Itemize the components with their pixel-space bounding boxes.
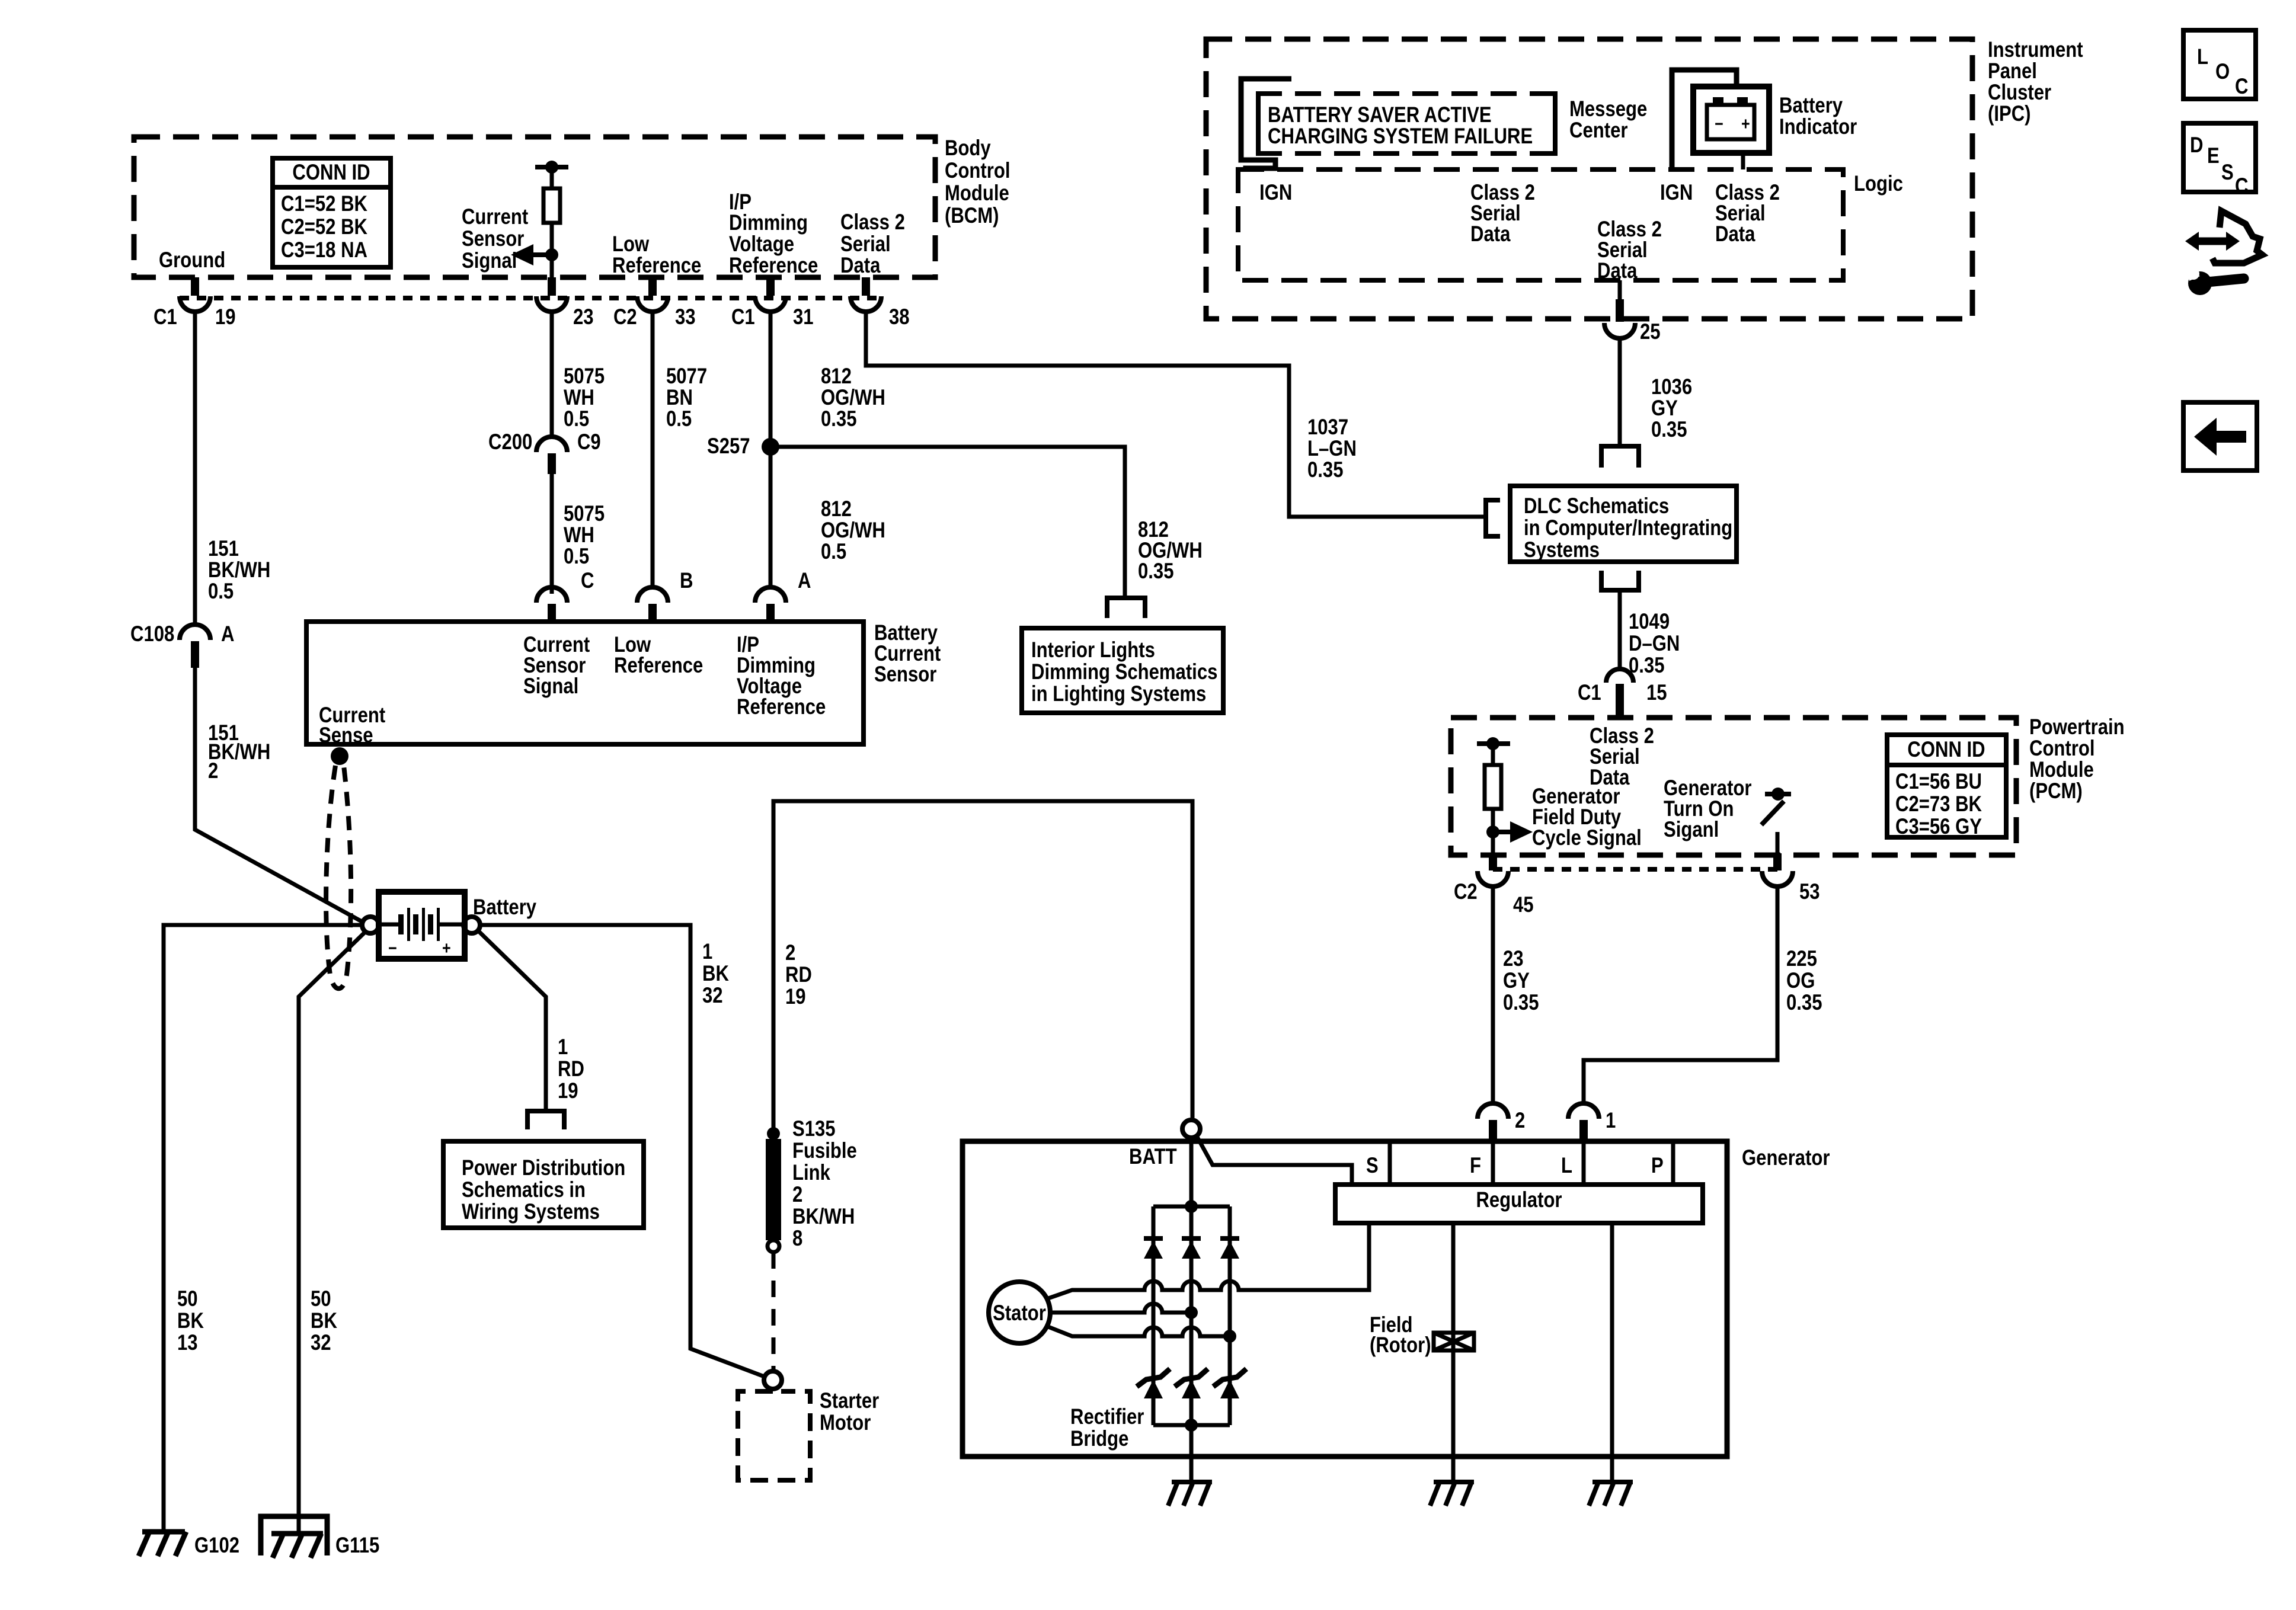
rectifier diode column 1	[1137, 1206, 1170, 1425]
svg-text:Sensor: Sensor	[874, 662, 936, 686]
svg-text:C: C	[2235, 174, 2249, 198]
svg-text:5077: 5077	[666, 364, 707, 388]
wire 1049 D-GN 0.35	[1620, 590, 1680, 677]
dashed current sense loop around battery cable	[326, 766, 351, 988]
resistor (BCM current sensor pull-up)	[535, 161, 568, 279]
svg-text:45: 45	[1513, 892, 1534, 917]
svg-text:19: 19	[215, 305, 236, 329]
svg-text:Indicator: Indicator	[1779, 114, 1857, 139]
starter motor terminal	[764, 1371, 782, 1389]
svg-text:(PCM): (PCM)	[2029, 779, 2083, 803]
svg-text:C1=52 BK: C1=52 BK	[281, 191, 367, 216]
stator lead 2	[1050, 1304, 1198, 1319]
svg-text:F: F	[1470, 1153, 1481, 1177]
wire BATT down to rectifier	[1189, 1138, 1194, 1206]
wire 5075 WH 0.5 (pin 23 to C200)	[552, 312, 605, 439]
wire rectifier to ground	[1189, 1425, 1194, 1482]
pin 23 (Current Sensor Signal)	[536, 277, 594, 329]
svg-text:Cluster: Cluster	[1988, 80, 2051, 104]
starter motor dashed box	[738, 1388, 879, 1480]
switch (generator turn on signal)	[1664, 776, 1791, 853]
wire 812 OG/WH 0.35 (S257 to interior lights)	[770, 447, 1203, 596]
svg-text:Sense: Sense	[319, 723, 373, 747]
connector C1 15 (PCM)	[1578, 669, 1667, 718]
svg-text:Battery: Battery	[1779, 93, 1843, 117]
ground G102	[139, 1532, 239, 1557]
wire 225 OG 0.35 (53 to generator L)	[1584, 886, 1822, 1103]
svg-text:Center: Center	[1569, 118, 1628, 142]
svg-text:CONN ID: CONN ID	[1907, 737, 1985, 761]
svg-text:Dimming Schematics: Dimming Schematics	[1031, 660, 1217, 684]
svg-text:CONN ID: CONN ID	[292, 160, 370, 184]
BCM module box (Body Control Module)	[134, 136, 1011, 277]
schematic cup (DLC left)	[1486, 500, 1500, 536]
wire logic to connector 25	[1618, 280, 1622, 305]
rectifier diode column 3	[1213, 1206, 1246, 1425]
PCM class 2 label	[1590, 724, 1654, 789]
svg-text:C3=56 GY: C3=56 GY	[1895, 814, 1982, 838]
LOC icon box	[2183, 30, 2256, 99]
wire label 1037 L-GN 0.35	[1307, 415, 1357, 482]
Interior Lights box	[1022, 628, 1223, 713]
DLC Schematics box	[1510, 486, 1737, 562]
svg-text:C108: C108	[130, 622, 174, 646]
logic input labels	[1259, 180, 1780, 283]
CONN ID table (BCM)	[273, 158, 391, 267]
stator lead 1 (to regulator)	[1047, 1223, 1369, 1299]
svg-text:BK: BK	[702, 961, 729, 985]
svg-text:L: L	[2197, 44, 2208, 69]
svg-text:0.5: 0.5	[564, 406, 589, 431]
wire 151 BK/WH 0.5 (ground to C108)	[195, 312, 270, 626]
CONN ID table (PCM)	[1887, 735, 2006, 838]
svg-text:D–GN: D–GN	[1629, 631, 1680, 655]
svg-text:32: 32	[702, 983, 723, 1007]
svg-text:Reference: Reference	[612, 253, 701, 277]
svg-text:19: 19	[558, 1078, 578, 1103]
diagnostic tool icon	[2185, 211, 2262, 295]
svg-text:(IPC): (IPC)	[1988, 101, 2031, 126]
svg-text:Starter: Starter	[820, 1388, 879, 1413]
dashed wire fusible link to starter	[772, 1252, 776, 1371]
Battery Current Sensor box	[306, 620, 941, 747]
svg-text:Reference: Reference	[614, 653, 703, 677]
svg-text:Signal: Signal	[523, 674, 578, 698]
svg-text:Ground: Ground	[159, 248, 225, 272]
pin B (sensor)	[637, 568, 693, 622]
svg-text:BK/WH: BK/WH	[792, 1204, 855, 1228]
svg-text:(Rotor): (Rotor)	[1370, 1333, 1431, 1357]
svg-text:in Lighting Systems: in Lighting Systems	[1031, 681, 1206, 706]
svg-text:53: 53	[1799, 879, 1820, 904]
back arrow icon box	[2183, 402, 2257, 470]
stator	[989, 1282, 1050, 1343]
PCM module box (Powertrain Control Module)	[1451, 715, 2125, 855]
svg-text:L: L	[1561, 1153, 1572, 1177]
wire 5075 WH 0.5 (C200 to pin C)	[552, 474, 605, 594]
svg-text:33: 33	[675, 305, 696, 329]
svg-text:0.5: 0.5	[208, 579, 234, 603]
svg-text:C3=18 NA: C3=18 NA	[281, 238, 367, 262]
schematic cup (DLC top)	[1601, 446, 1639, 468]
svg-text:WH: WH	[564, 523, 594, 547]
solid hook (message center to logic box)	[1241, 79, 1291, 172]
svg-text:2: 2	[792, 1182, 802, 1206]
svg-text:0.35: 0.35	[1307, 457, 1344, 482]
fusible link S135	[766, 1116, 857, 1252]
arrow (current sensor signal)	[462, 204, 558, 273]
svg-text:Low: Low	[612, 232, 649, 256]
DESC icon box	[2183, 123, 2256, 198]
svg-text:Battery: Battery	[473, 895, 536, 919]
svg-text:Logic: Logic	[1854, 171, 1903, 196]
pin 38 (Class 2 Serial Data)	[850, 277, 910, 329]
connector 25 (IPC)	[1604, 299, 1661, 344]
svg-text:1: 1	[702, 939, 712, 964]
svg-text:50: 50	[311, 1286, 331, 1311]
svg-text:C2=52 BK: C2=52 BK	[281, 215, 367, 239]
wire 5077 BN 0.5 (pin 33 to pin B)	[653, 312, 707, 588]
svg-text:OG: OG	[1786, 968, 1815, 993]
wire 1 RD 19 (battery positive to power distribution)	[478, 930, 584, 1109]
svg-text:1036: 1036	[1651, 375, 1692, 399]
svg-text:Generator: Generator	[1742, 1145, 1830, 1170]
wire 1 BK 32 (battery positive to starter motor)	[480, 925, 766, 1377]
svg-text:S: S	[1366, 1153, 1379, 1177]
wire 1036 GY 0.35	[1620, 338, 1692, 446]
svg-text:+: +	[1741, 114, 1750, 134]
svg-text:BN: BN	[666, 385, 693, 409]
wire 812 OG/WH 0.35 (pin 31 to S257)	[770, 312, 885, 588]
svg-text:S: S	[2221, 160, 2234, 184]
svg-text:0.35: 0.35	[1503, 990, 1539, 1014]
svg-text:Control: Control	[2029, 736, 2095, 760]
svg-text:Panel: Panel	[1988, 59, 2037, 83]
svg-text:Siganl: Siganl	[1664, 817, 1719, 841]
svg-text:C2: C2	[613, 305, 637, 329]
BCM connector face dashed line	[180, 296, 881, 300]
svg-text:Control: Control	[945, 158, 1011, 183]
IPC module box (Instrument Panel Cluster)	[1206, 37, 2083, 319]
schematic cup (DLC bottom)	[1601, 571, 1639, 590]
svg-text:Instrument: Instrument	[1988, 37, 2083, 62]
svg-text:31: 31	[793, 305, 814, 329]
svg-text:Regulator: Regulator	[1476, 1188, 1562, 1212]
connector 2 (generator F)	[1478, 1103, 1525, 1142]
wire 151 BK/WH 2 (C108 to battery)	[195, 668, 363, 922]
svg-text:2: 2	[785, 940, 795, 965]
svg-text:32: 32	[311, 1330, 331, 1355]
svg-text:E: E	[2207, 143, 2220, 168]
rectifier top bus	[1153, 1200, 1230, 1213]
Power Distribution box	[443, 1141, 644, 1228]
svg-text:Wiring Systems: Wiring Systems	[462, 1199, 600, 1224]
svg-text:IGN: IGN	[1259, 180, 1292, 204]
svg-text:5075: 5075	[564, 501, 605, 526]
svg-text:OG/WH: OG/WH	[821, 518, 885, 542]
svg-text:Power Distribution: Power Distribution	[462, 1156, 625, 1180]
svg-text:Sensor: Sensor	[462, 226, 524, 251]
connector 53 (PCM)	[1762, 853, 1820, 904]
current sense node dot	[331, 747, 348, 765]
svg-text:BATT: BATT	[1129, 1144, 1177, 1169]
svg-text:Voltage: Voltage	[729, 232, 794, 256]
svg-text:50: 50	[177, 1286, 198, 1311]
svg-text:−: −	[1715, 114, 1723, 134]
svg-text:1049: 1049	[1629, 609, 1670, 633]
svg-text:1037: 1037	[1307, 415, 1348, 439]
svg-text:C1=56 BU: C1=56 BU	[1895, 769, 1982, 793]
battery cell symbol	[380, 908, 463, 958]
svg-text:A: A	[221, 622, 235, 646]
svg-text:A: A	[798, 568, 811, 593]
svg-text:Data: Data	[840, 253, 881, 277]
PCM connector face dashed line	[1493, 867, 1777, 872]
ground (rectifier)	[1168, 1482, 1212, 1506]
svg-text:D: D	[2190, 133, 2204, 157]
battery indicator icon	[1672, 70, 1857, 169]
svg-text:Module: Module	[945, 181, 1009, 205]
svg-text:B: B	[680, 568, 693, 593]
ground (field)	[1430, 1482, 1474, 1506]
svg-text:G102: G102	[194, 1533, 239, 1557]
svg-text:C1: C1	[154, 305, 177, 329]
svg-text:Dimming: Dimming	[729, 210, 808, 235]
splice S257	[707, 434, 779, 458]
svg-text:8: 8	[792, 1226, 802, 1250]
svg-text:G115: G115	[335, 1533, 379, 1557]
svg-text:0.35: 0.35	[1629, 653, 1665, 677]
svg-text:DLC Schematics: DLC Schematics	[1524, 494, 1669, 518]
svg-text:C: C	[2235, 74, 2249, 98]
svg-text:2: 2	[208, 758, 218, 783]
svg-text:Serial: Serial	[840, 232, 891, 256]
wire battery negative to G115	[299, 932, 366, 1534]
stator lead 3	[1047, 1326, 1236, 1343]
svg-text:BK/WH: BK/WH	[208, 558, 270, 582]
svg-text:Motor: Motor	[820, 1410, 871, 1435]
svg-text:Rectifier: Rectifier	[1070, 1404, 1144, 1429]
svg-text:GY: GY	[1503, 968, 1530, 993]
svg-text:225: 225	[1786, 946, 1817, 971]
ground (regulator P)	[1589, 1482, 1633, 1506]
svg-text:0.5: 0.5	[564, 544, 589, 568]
pin C1 19 (Ground)	[154, 277, 236, 329]
svg-text:Stator: Stator	[993, 1301, 1046, 1325]
svg-text:0.35: 0.35	[1651, 417, 1687, 441]
svg-text:0.35: 0.35	[1138, 559, 1174, 583]
svg-text:1: 1	[1606, 1108, 1616, 1132]
svg-text:0.5: 0.5	[666, 406, 692, 431]
svg-text:0.5: 0.5	[821, 539, 846, 564]
connector C2 45 (PCM)	[1454, 853, 1534, 917]
svg-text:OG/WH: OG/WH	[821, 385, 885, 409]
svg-text:Reference: Reference	[729, 253, 818, 277]
svg-text:15: 15	[1646, 680, 1667, 705]
connector 1 (generator L)	[1568, 1103, 1616, 1142]
wire field to ground	[1451, 1457, 1456, 1482]
svg-text:Data: Data	[1715, 222, 1755, 246]
svg-text:Link: Link	[792, 1160, 830, 1185]
svg-text:151: 151	[208, 536, 239, 561]
pin C (sensor)	[536, 568, 594, 622]
schematic cup (interior lights)	[1107, 598, 1145, 618]
svg-text:BATTERY SAVER ACTIVE: BATTERY SAVER ACTIVE	[1268, 103, 1492, 127]
svg-text:Signal: Signal	[462, 248, 517, 273]
svg-text:38: 38	[889, 305, 910, 329]
svg-text:RD: RD	[785, 962, 812, 987]
svg-text:Messege: Messege	[1569, 97, 1647, 121]
svg-text:BK: BK	[311, 1308, 337, 1333]
svg-text:C2: C2	[1454, 879, 1478, 904]
svg-text:Interior Lights: Interior Lights	[1031, 638, 1155, 662]
regulator box	[1335, 1185, 1703, 1223]
svg-text:1: 1	[558, 1035, 568, 1059]
connector C200 C9	[488, 430, 601, 474]
svg-text:GY: GY	[1651, 396, 1678, 420]
svg-text:Systems: Systems	[1524, 537, 1600, 562]
svg-text:812: 812	[821, 497, 852, 521]
svg-text:Module: Module	[2029, 757, 2094, 782]
connector C108 A	[130, 622, 235, 668]
svg-text:C: C	[581, 568, 594, 593]
ground G115 with enclosure	[261, 1516, 379, 1558]
svg-text:19: 19	[785, 984, 806, 1009]
svg-text:Fusible: Fusible	[792, 1138, 857, 1163]
resistor (PCM generator field)	[1477, 737, 1510, 853]
svg-text:S257: S257	[707, 434, 750, 458]
BCM internal labels	[159, 190, 905, 277]
generator terminal band S F L P	[1366, 1142, 1673, 1185]
pin C2 33 (Low Reference)	[613, 277, 696, 329]
BATT terminal junction	[1129, 1120, 1200, 1169]
wire 23 GY 0.35 (45 to generator F)	[1493, 886, 1539, 1103]
battery negative terminal	[362, 917, 379, 933]
battery box	[379, 892, 536, 959]
svg-text:25: 25	[1640, 319, 1661, 344]
svg-text:0.35: 0.35	[821, 406, 857, 431]
message center box	[1256, 91, 1647, 156]
generator box	[962, 1141, 1830, 1457]
svg-text:Cycle Signal: Cycle Signal	[1532, 825, 1642, 850]
svg-text:C1: C1	[731, 305, 755, 329]
svg-text:13: 13	[177, 1330, 198, 1355]
svg-text:23: 23	[1503, 946, 1524, 971]
svg-text:L–GN: L–GN	[1307, 436, 1357, 460]
wire 2 RD 19 (fusible link to generator BATT)	[773, 801, 1192, 1134]
svg-text:C1: C1	[1578, 680, 1601, 705]
svg-text:Reference: Reference	[737, 694, 826, 719]
wire battery negative to G102	[164, 925, 362, 1532]
svg-text:Bridge: Bridge	[1070, 1426, 1128, 1451]
svg-text:C200: C200	[488, 430, 532, 454]
svg-text:−: −	[388, 939, 397, 958]
svg-text:Class 2: Class 2	[840, 210, 905, 234]
svg-text:Current: Current	[462, 204, 528, 229]
wire regulator L output to ground	[1610, 1223, 1614, 1482]
svg-text:P: P	[1651, 1153, 1664, 1177]
rectifier diode column 2	[1175, 1206, 1208, 1425]
svg-text:Data: Data	[1470, 222, 1511, 246]
pin C1 31 (I/P Dimming)	[731, 277, 814, 329]
svg-text:CHARGING SYSTEM FAILURE: CHARGING SYSTEM FAILURE	[1268, 124, 1533, 148]
battery positive terminal	[463, 917, 480, 933]
svg-text:WH: WH	[564, 385, 594, 409]
svg-text:23: 23	[573, 305, 594, 329]
svg-text:IGN: IGN	[1660, 180, 1693, 204]
svg-text:O: O	[2215, 59, 2230, 84]
pin A (sensor)	[755, 568, 811, 622]
svg-text:0.35: 0.35	[1786, 990, 1822, 1014]
svg-text:2: 2	[1515, 1108, 1525, 1132]
field rotor symbol	[1370, 1223, 1474, 1457]
svg-text:5075: 5075	[564, 364, 605, 388]
svg-text:BK: BK	[177, 1308, 204, 1333]
svg-text:+: +	[442, 939, 451, 958]
svg-text:C2=73 BK: C2=73 BK	[1895, 792, 1982, 816]
wire class 2 serial data (pin 38 to DLC)	[866, 312, 1483, 517]
svg-text:Data: Data	[1597, 258, 1638, 283]
schematic cup (power distribution)	[527, 1111, 564, 1129]
svg-text:Schematics in: Schematics in	[462, 1177, 586, 1202]
svg-text:S135: S135	[792, 1116, 836, 1141]
svg-text:Powertrain: Powertrain	[2029, 715, 2125, 739]
svg-text:RD: RD	[558, 1057, 584, 1081]
rectifier bottom bus	[1070, 1404, 1230, 1451]
svg-text:812: 812	[821, 364, 852, 388]
wire 812 OG/WH 0.5 (S257 to pin A)	[821, 497, 885, 564]
svg-text:C9: C9	[577, 430, 601, 454]
wire BATT to S terminal	[1197, 1136, 1352, 1185]
svg-text:Body: Body	[945, 136, 991, 160]
logic box (IPC)	[1238, 169, 1903, 280]
arrow (generator field duty cycle signal)	[1486, 784, 1642, 850]
svg-text:in Computer/Integrating: in Computer/Integrating	[1524, 516, 1732, 540]
svg-text:(BCM): (BCM)	[945, 203, 999, 228]
